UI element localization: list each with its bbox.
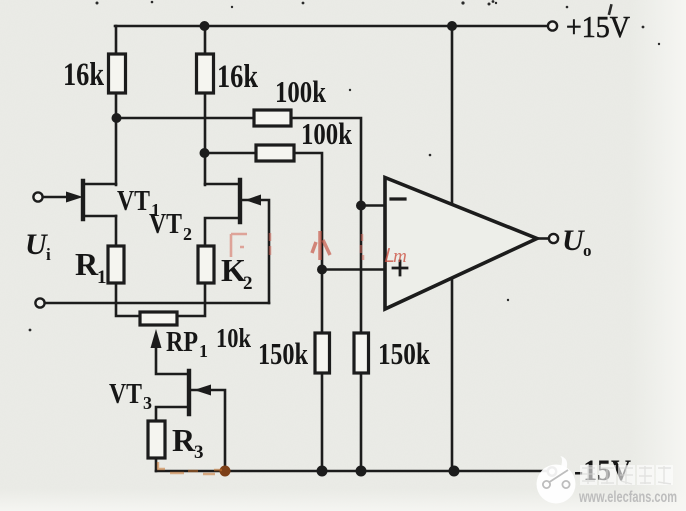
svg-text:+15V: +15V [566,9,631,44]
wire top +15V rail [115,25,547,28]
resistor 100k upper body [254,110,291,126]
svg-text:3: 3 [194,442,204,463]
wire node B to 100k lower [205,152,256,155]
wire bottom -15V rail [156,470,546,473]
wire node A to 100k upper [116,117,254,120]
svg-text:Լm: Լm [383,246,407,267]
watermark red fragments center [231,233,363,260]
node junction dot inverting net [356,201,366,211]
resistor R2 body [198,246,214,283]
wire left 16k bottom lead to VT1 drain [115,93,118,185]
wire VT1 gate lead [43,196,70,199]
terminal input lower [35,298,44,307]
wire to op-amp noninverting input [322,268,385,271]
watermark elecfans logo circle [537,456,576,504]
svg-text:RP: RP [166,327,198,358]
svg-text:VT: VT [149,209,182,240]
watermark elecfans CJK text band [580,465,673,485]
resistor 16k right body [197,54,214,93]
wire right 16k top lead [204,26,207,54]
wire op-amp negative supply [451,280,454,471]
svg-text:VT: VT [109,379,142,410]
arrow VT1 gate [66,192,83,203]
node junction dot noninverting net [317,265,327,275]
node A junction dot (left 16k / 100k tap) [112,113,122,123]
terminal Uo output [549,234,558,243]
wire VT1 source to R1 [115,216,118,246]
resistor 16k left body [109,54,126,93]
svg-text:100k: 100k [301,116,353,151]
op-amp minus sign [391,197,405,200]
junction dot VT3 gate on rail [220,466,231,477]
wire 150k left bottom lead [321,373,324,471]
svg-text:1: 1 [97,267,107,288]
resistor 100k lower body [256,145,294,161]
svg-text:1: 1 [199,341,208,361]
arrow VT3 gate [194,385,211,396]
junction dot 150k right on rail [356,466,367,477]
wire op-amp positive supply [451,26,454,203]
potentiometer RP1 body [140,312,177,325]
svg-text:150k: 150k [258,336,309,371]
svg-text:i: i [46,245,51,264]
resistor 150k right body [354,333,369,373]
junction dot 150k left on rail [317,466,328,477]
wire VT2 source lead [205,218,240,246]
arrow VT2 gate [245,195,261,206]
svg-text:VT: VT [117,186,150,217]
watermark scan specks [29,0,661,331]
resistor R1 body [108,246,124,283]
junction dot top rail right 16k [200,21,210,31]
resistor R3 body [148,421,165,458]
wire 100k lower to vertical x322 [294,153,322,333]
wire 150k right bottom lead [360,373,363,471]
terminal input upper [33,192,42,201]
svg-text:10k: 10k [216,323,251,353]
watermark red stroke center strong [312,231,330,260]
transistor Q VT2 channel bar [238,180,242,222]
wire R3 bottom lead [155,458,158,471]
wire VT3 gate lead [189,390,225,471]
wire right 16k bottom lead to VT2 drain [204,93,207,185]
wire RP1 wiper to VT3 drain [156,344,187,374]
svg-text:U: U [562,224,585,257]
arrow RP1 wiper [151,329,162,348]
watermark orange dashes bottom [157,462,222,474]
wire VT1 source lead [83,215,116,218]
op-amp plus sign [393,261,407,275]
wire R2 bottom to RP1 right [177,283,205,316]
svg-text:16k: 16k [63,57,105,93]
svg-text:2: 2 [183,224,192,244]
svg-text:150k: 150k [378,336,431,371]
svg-text:U: U [25,228,48,261]
node B junction dot (right 16k / 100k tap) [200,148,210,158]
terminal +15V [548,21,557,30]
svg-text:R: R [75,246,99,282]
svg-text:100k: 100k [275,74,327,109]
wire 100k upper to vertical x361 [291,118,361,333]
op-amp U1 triangle [385,178,537,310]
wire left 16k top lead [115,26,118,54]
wire lower input to VT2 gate [45,302,269,305]
transistor Q VT1 channel bar [81,181,85,219]
svg-text:16k: 16k [217,59,259,95]
wire VT2 drain lead [205,183,240,186]
wire to op-amp inverting input [361,204,385,207]
junction dot op-amp supply on rail [449,466,460,477]
resistor 150k left body [315,333,330,373]
terminal -15V [548,467,556,475]
wire VT3 source lead [156,407,189,421]
wire op-amp output [537,237,548,240]
junction dot top rail op-amp supply [447,21,457,31]
wire VT1 drain lead [83,183,116,186]
svg-text:o: o [583,241,592,260]
wire VT2 gate lead [240,200,269,303]
svg-text:www.elecfans.com: www.elecfans.com [578,489,677,506]
svg-text:2: 2 [243,273,253,294]
svg-text:R: R [172,422,196,458]
wire R1 bottom to RP1 left [116,283,140,316]
svg-text:3: 3 [143,393,152,413]
transistor Q VT3 channel bar [187,371,191,414]
